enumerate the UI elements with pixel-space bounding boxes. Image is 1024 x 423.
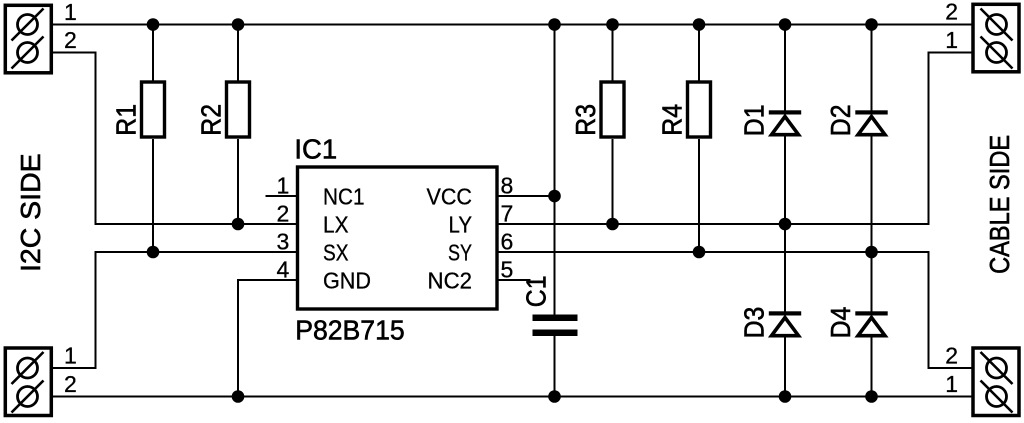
svg-text:R4: R4 <box>657 104 688 136</box>
svg-text:1: 1 <box>945 371 958 397</box>
svg-text:1: 1 <box>64 0 77 25</box>
svg-text:1: 1 <box>277 173 290 199</box>
junction R1 top rail <box>147 18 160 31</box>
svg-text:P82B715: P82B715 <box>295 314 405 345</box>
svg-text:D2: D2 <box>825 105 856 137</box>
wire R3 column <box>612 25 614 82</box>
wire bottom rail <box>28 396 997 398</box>
wire NC1 stub pin1 <box>266 195 297 197</box>
junction R2 LX <box>232 218 245 231</box>
screw terminal X4-2 <box>981 352 1013 384</box>
screw terminal X1-1 <box>12 9 44 41</box>
junction R3 top rail <box>606 18 619 31</box>
diode D1 <box>739 105 802 137</box>
terminal block X1 top-left <box>5 0 76 73</box>
junction C1 VCC pin8 <box>548 190 561 203</box>
diode D4 <box>825 307 888 339</box>
wire top rail <box>28 24 997 26</box>
junction R4 SY <box>693 246 706 259</box>
junction R3 LY <box>606 218 619 231</box>
diode D3 <box>739 307 802 339</box>
svg-text:2: 2 <box>945 0 958 25</box>
svg-text:2: 2 <box>945 343 958 369</box>
junction D2 D4 SY <box>865 246 878 259</box>
screw terminal X3-1 <box>981 37 1013 69</box>
junction D1 top rail <box>779 18 792 31</box>
screw terminal X1-2 <box>12 37 44 69</box>
diode D2 <box>825 105 888 137</box>
screw terminal X2-1 <box>12 352 44 384</box>
svg-text:1: 1 <box>64 343 77 369</box>
resistor R3 <box>601 82 624 137</box>
wire D1-D3 column <box>784 25 786 111</box>
op-amp IC1 box (P82B715 buffer) <box>298 167 498 309</box>
wire SY pin6 to bottom-right terminal pin2 <box>499 252 997 368</box>
svg-text:D3: D3 <box>739 307 770 339</box>
svg-text:C1: C1 <box>521 276 552 308</box>
svg-text:NC2: NC2 <box>428 267 473 293</box>
wire NC2 stub pin5 <box>499 279 531 281</box>
svg-text:5: 5 <box>501 257 514 283</box>
junction D1 D3 LY <box>779 218 792 231</box>
wire D2-D4 column <box>871 25 873 111</box>
resistor R2 <box>227 82 250 137</box>
svg-text:IC1: IC1 <box>294 133 337 164</box>
screw terminal X2-2 <box>12 381 44 413</box>
terminal block X4 bottom-right <box>945 343 1019 416</box>
svg-text:I2C SIDE: I2C SIDE <box>15 153 46 272</box>
svg-text:R1: R1 <box>111 104 142 136</box>
junction R2 top rail <box>232 18 245 31</box>
svg-text:D1: D1 <box>739 105 770 137</box>
svg-text:CABLE SIDE: CABLE SIDE <box>984 135 1015 274</box>
svg-text:NC1: NC1 <box>323 183 365 209</box>
svg-text:2: 2 <box>64 371 77 397</box>
wire GND pin4 to bottom rail <box>238 280 296 397</box>
svg-text:LX: LX <box>323 211 349 237</box>
terminal block X2 bottom-left <box>5 343 76 416</box>
screw terminal X3-2 <box>981 9 1013 41</box>
svg-text:D4: D4 <box>825 307 856 339</box>
junction D3 bottom rail <box>779 390 792 403</box>
wire LY pin7 to top-right terminal pin1 <box>499 53 997 225</box>
junction D2 top rail <box>865 18 878 31</box>
wire R4 column <box>698 25 700 82</box>
svg-text:SY: SY <box>448 239 472 265</box>
svg-text:LY: LY <box>449 211 473 237</box>
wire VCC pin8 stub <box>499 195 555 197</box>
terminal block X3 top-right <box>945 0 1019 72</box>
junction GND bottom rail <box>232 390 245 403</box>
screw terminal X4-1 <box>981 381 1013 413</box>
wire R1 column <box>152 25 154 82</box>
junction VCC top rail <box>548 18 561 31</box>
junction R1 SX <box>147 246 160 259</box>
junction R4 top rail <box>693 18 706 31</box>
resistor R4 <box>688 82 711 137</box>
svg-text:3: 3 <box>277 229 290 255</box>
wire C1 column <box>554 25 556 315</box>
svg-text:VCC: VCC <box>427 183 473 209</box>
svg-text:GND: GND <box>323 267 371 293</box>
svg-text:2: 2 <box>64 27 77 53</box>
wire bottom-left terminal pin1 to SX <box>28 252 297 368</box>
svg-text:R2: R2 <box>196 104 227 136</box>
junction D4 bottom rail <box>865 390 878 403</box>
svg-text:6: 6 <box>501 229 514 255</box>
resistor R1 <box>142 82 165 137</box>
svg-text:1: 1 <box>945 27 958 53</box>
svg-text:R3: R3 <box>570 104 601 136</box>
svg-text:2: 2 <box>277 201 290 227</box>
svg-text:7: 7 <box>501 201 514 227</box>
svg-text:8: 8 <box>501 173 514 199</box>
svg-text:SX: SX <box>323 239 349 265</box>
wire top-left terminal pin2 to LX <box>28 53 297 225</box>
svg-text:4: 4 <box>277 257 290 283</box>
capacitor C1 <box>521 276 578 337</box>
wire R2 column <box>237 25 239 82</box>
junction C1 bottom rail <box>548 390 561 403</box>
